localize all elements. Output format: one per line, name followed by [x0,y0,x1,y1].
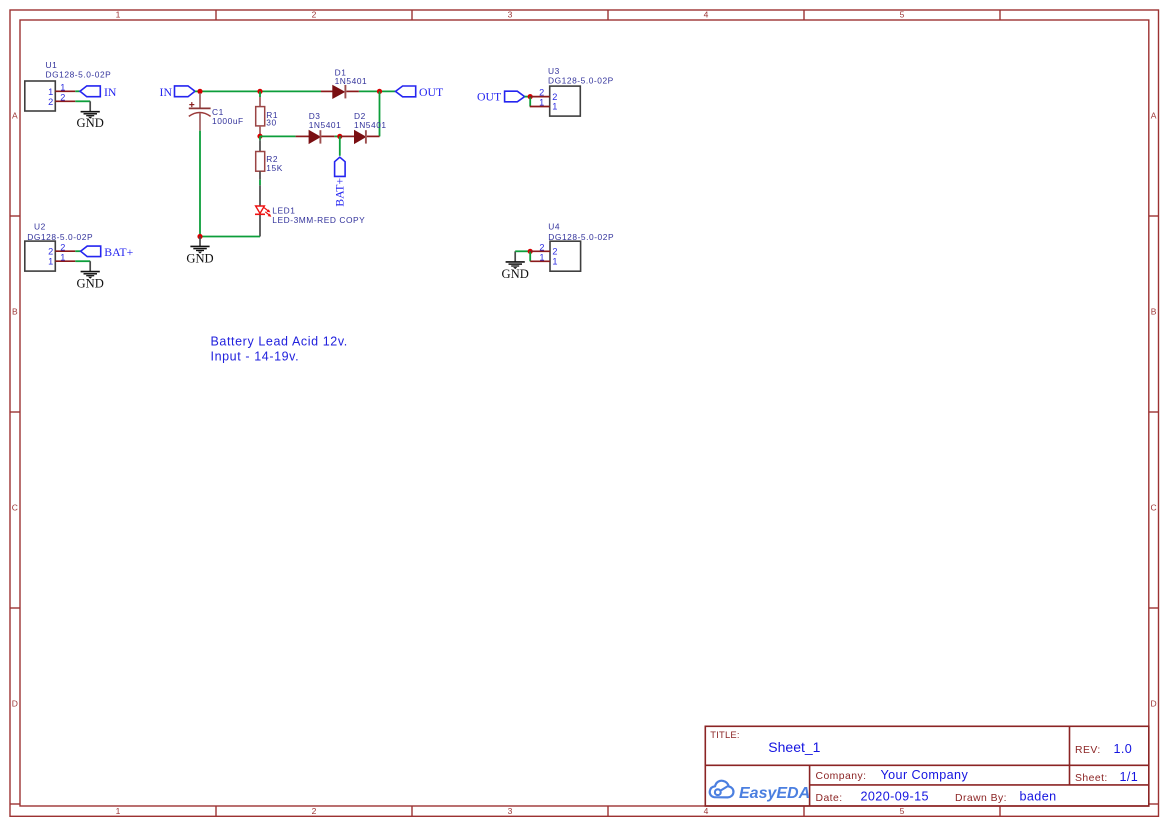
svg-text:Company:: Company: [816,771,867,782]
svg-text:1: 1 [60,83,65,93]
node R1 top junction [257,89,262,94]
svg-text:C: C [12,503,18,513]
wire R1 bottom to R2 [259,136,261,140]
EasyEDA logo [710,781,810,802]
svg-text:DG128-5.0-02P: DG128-5.0-02P [548,76,614,86]
svg-text:IN: IN [160,85,173,99]
svg-text:1N5401: 1N5401 [309,120,342,130]
connector U4 [548,221,614,271]
U1 pin 1 [48,83,75,97]
svg-text:Your Company: Your Company [881,768,969,782]
svg-text:1: 1 [552,257,557,267]
wire IN rail top [195,90,321,92]
svg-text:BAT+: BAT+ [333,178,347,207]
svg-text:OUT: OUT [477,90,502,104]
svg-text:4: 4 [704,806,709,816]
svg-text:2: 2 [539,88,544,98]
title block [705,726,1149,806]
svg-text:1.0: 1.0 [1114,742,1133,756]
svg-text:U4: U4 [548,221,560,231]
svg-text:1: 1 [552,102,557,112]
net flag OUT (main) [396,85,445,99]
svg-text:C: C [1151,503,1157,513]
svg-text:GND: GND [502,267,529,281]
svg-text:15K: 15K [266,163,283,173]
ground GND (U4) [502,251,529,280]
svg-text:DG128-5.0-02P: DG128-5.0-02P [27,232,93,242]
svg-text:B: B [12,307,18,317]
wire U2 pin2 to BAT+ flag [75,250,80,252]
svg-text:3: 3 [508,10,513,20]
node OUT junction [377,89,382,94]
wire U1 pin2 to ground [75,100,90,102]
connector U1 [25,60,112,111]
svg-text:30: 30 [266,117,276,127]
svg-text:2: 2 [539,242,544,252]
svg-text:2: 2 [48,97,53,107]
svg-text:IN: IN [104,85,117,99]
U3 pin 1 [530,98,558,112]
svg-text:DG128-5.0-02P: DG128-5.0-02P [548,232,614,242]
wire GND to U4 node [515,250,530,252]
node BAT+ junction [337,134,342,139]
free text note [211,335,348,364]
wire U1 pin1 to IN flag [75,90,80,92]
svg-text:1000uF: 1000uF [212,116,244,126]
svg-text:2020-09-15: 2020-09-15 [861,790,929,804]
svg-text:U2: U2 [34,221,46,231]
svg-text:1: 1 [48,87,53,97]
node U4 junction [528,249,533,254]
node R1 bottom junction [257,134,262,139]
svg-text:1/1: 1/1 [1120,770,1139,784]
svg-text:4: 4 [704,10,709,20]
U1 pin 2 [48,93,75,107]
svg-text:D: D [12,699,18,709]
svg-text:DG128-5.0-02P: DG128-5.0-02P [46,70,112,80]
net flag BAT+ (U2) [81,245,134,259]
svg-text:GND: GND [77,116,104,130]
svg-text:2: 2 [60,93,65,103]
U4 pin 1 [530,252,557,266]
connector U3 [548,66,614,116]
svg-text:1: 1 [116,806,121,816]
connector U2 [25,221,93,271]
resistor R2 [256,140,283,179]
svg-text:TITLE:: TITLE: [710,729,739,740]
wire R1 junction to D3 [260,135,296,137]
U2 pin 2 [48,243,75,257]
wire U3 pin2 to pin1 [529,97,531,107]
svg-text:Sheet:: Sheet: [1075,773,1108,784]
svg-text:baden: baden [1020,790,1057,804]
svg-text:1: 1 [539,252,544,262]
diode D2 [340,111,387,143]
svg-text:OUT: OUT [419,85,444,99]
U3 pin 2 [530,88,558,102]
wire R2 to LED1 [259,180,261,186]
svg-text:LED-3MM-RED COPY: LED-3MM-RED COPY [272,215,365,225]
svg-text:2: 2 [60,243,65,253]
diode D3 [296,111,342,143]
LED LED1 [255,185,365,236]
svg-text:1: 1 [48,257,53,267]
svg-text:Drawn By:: Drawn By: [955,793,1007,804]
net flag BAT+ (main) [333,157,347,207]
svg-text:Battery Lead Acid 12v.: Battery Lead Acid 12v. [211,335,348,349]
svg-text:1N5401: 1N5401 [354,120,387,130]
wire D1 to OUT [359,90,396,92]
svg-text:BAT+: BAT+ [104,245,133,259]
wire OUT flag to U3 node [525,96,531,98]
svg-text:A: A [12,111,18,121]
ground GND (U1) [77,101,104,130]
svg-text:B: B [1151,307,1157,317]
wire D3 to BAT+ node [335,135,340,137]
svg-text:U1: U1 [46,60,58,70]
wire C1 to GND rail [199,131,201,237]
svg-text:2: 2 [552,92,557,102]
svg-text:U3: U3 [548,66,560,76]
capacitor C1 [189,93,244,131]
svg-text:1: 1 [116,10,121,20]
svg-text:Input - 14-19v.: Input - 14-19v. [211,349,300,363]
svg-text:1: 1 [539,98,544,108]
svg-text:2: 2 [552,247,557,257]
svg-text:5: 5 [900,10,905,20]
node GND junction [197,234,202,239]
wire U2 pin1 to ground [75,260,90,262]
svg-text:2: 2 [48,247,53,257]
net flag OUT (U3) [477,90,525,104]
ground GND (U2) [77,261,104,291]
diode D1 [321,68,367,99]
ground GND (main) [186,237,213,266]
svg-text:1: 1 [60,253,65,263]
wire BAT+ node down [339,136,341,155]
wire U4 pin2 to pin1 [529,251,531,261]
svg-text:GND: GND [186,252,213,266]
svg-text:1N5401: 1N5401 [335,76,368,86]
U4 pin 2 [530,242,557,256]
svg-text:GND: GND [77,277,104,291]
svg-text:5: 5 [900,806,905,816]
node U3 junction [528,94,533,99]
svg-text:2: 2 [312,806,317,816]
wire GND rail bottom [200,236,260,238]
U2 pin 1 [48,253,75,267]
resistor R1 [256,91,278,136]
svg-text:D: D [1151,699,1157,709]
net flag IN (main input) [160,85,195,99]
svg-text:REV:: REV: [1075,745,1101,756]
node IN junction [197,89,202,94]
wire OUT down to D2 cathode [379,91,381,136]
svg-text:A: A [1151,111,1157,121]
svg-text:LED1: LED1 [272,205,295,215]
svg-text:EasyEDA: EasyEDA [739,785,810,802]
svg-text:Date:: Date: [816,793,843,804]
svg-text:2: 2 [312,10,317,20]
svg-text:3: 3 [508,806,513,816]
net flag IN (U1) [80,85,117,99]
svg-text:Sheet_1: Sheet_1 [768,739,820,755]
